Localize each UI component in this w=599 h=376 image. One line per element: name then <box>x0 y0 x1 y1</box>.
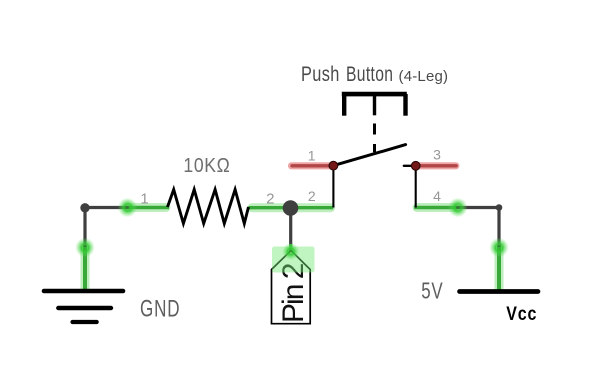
wire W2 glow (node to resistor, green net highlight) <box>128 203 166 212</box>
Pin 2 flag (pentagon label) <box>272 251 311 324</box>
wire W6 glow (right vertical to 5V) <box>495 249 504 289</box>
svg-text:1: 1 <box>308 147 316 163</box>
svg-text:Button: Button <box>346 62 393 86</box>
svg-text:(4-Leg): (4-Leg) <box>399 68 449 85</box>
wire W1 dark (node A to green wire) <box>85 206 128 209</box>
node A dot <box>80 203 89 212</box>
push button S1 : pin3 stub <box>404 165 416 167</box>
svg-text:1: 1 <box>140 191 148 208</box>
green tip at flag apex <box>289 244 292 252</box>
push button S1 : left leg (pin1 to pin2) <box>332 166 334 208</box>
push button S1 : pin1 terminal dot <box>329 161 338 170</box>
connection blob (W2 left end) <box>118 198 138 218</box>
svg-text:Push: Push <box>301 63 340 87</box>
5V supply bar <box>460 289 539 294</box>
wire W4 glow (junction to switch pin 2) <box>293 203 331 212</box>
wire W5 green core (switch pin 4 to corner) <box>414 206 458 209</box>
svg-text:4: 4 <box>433 188 441 204</box>
wire W8 dark (node A down) <box>83 208 86 248</box>
wire W9 dark (junction down to Pin 2 flag) <box>289 208 292 247</box>
wire W7 green core (left vertical into GND) <box>83 246 87 291</box>
wire W11 dark (corner down) <box>497 208 500 248</box>
push button S1 : actuator bracket <box>342 94 407 116</box>
push button S1 : dashed actuator link <box>373 124 376 153</box>
svg-text:3: 3 <box>433 147 441 163</box>
push button S1 : pin3 terminal dot <box>411 161 420 170</box>
corner dot (right side) <box>496 204 503 211</box>
connection blob (left vertical) <box>75 238 95 258</box>
wire W5 glow (switch pin 4 wire) <box>417 203 455 212</box>
push button S1 : lever <box>333 145 405 166</box>
resistor R1 <box>168 190 249 224</box>
wire W4 green core (junction to switch pin 2) <box>291 206 334 209</box>
wire W2 green core (node to resistor) <box>125 206 170 209</box>
Pin 2 flag highlight <box>272 243 315 273</box>
svg-text:GND: GND <box>140 296 180 323</box>
wire red pin1 glow <box>292 162 330 169</box>
push button S1 : right leg (pin3 to pin4) <box>415 166 417 208</box>
wire red pin3 core <box>418 164 457 167</box>
wire red pin3 glow <box>419 162 456 169</box>
svg-text:2: 2 <box>266 191 274 208</box>
connection blob (W5 right end) <box>448 198 468 218</box>
junction dot (node between resistor and pin 2) <box>283 200 299 216</box>
wire W3 glow (resistor to junction) <box>252 203 288 212</box>
svg-text:Vcc: Vcc <box>506 303 537 325</box>
wire W6 green core (right vertical into 5V) <box>497 246 501 292</box>
svg-text:10KΩ: 10KΩ <box>183 154 230 176</box>
wire W3 green core (resistor to junction) <box>249 206 291 209</box>
ground symbol <box>44 291 123 322</box>
wire red pin1 core <box>292 164 330 167</box>
wire W7 glow (left vertical to GND) <box>81 249 90 289</box>
connection blob (right vertical) <box>489 238 509 258</box>
svg-text:5V: 5V <box>421 278 443 304</box>
svg-text:2: 2 <box>308 188 316 204</box>
wire W10 dark (pin4 green to corner) <box>458 206 500 209</box>
